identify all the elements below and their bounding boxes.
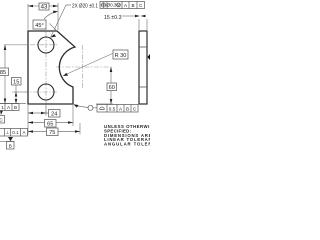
svg-text:24: 24: [51, 112, 57, 118]
svg-text:65: 65: [47, 122, 53, 128]
svg-text:15 ±0.3: 15 ±0.3: [104, 15, 122, 21]
svg-text:0.5: 0.5: [109, 106, 116, 111]
svg-text:B: B: [131, 3, 134, 8]
svg-text:B: B: [126, 106, 129, 111]
svg-text:⊥: ⊥: [5, 130, 9, 135]
svg-text:Ø0.3: Ø0.3: [107, 3, 117, 8]
svg-text:R 30: R 30: [115, 53, 127, 59]
svg-text:M: M: [117, 4, 120, 8]
svg-text:85: 85: [0, 70, 6, 76]
svg-text:ANGULAR TOLERANCES ±1°: ANGULAR TOLERANCES ±1°: [104, 142, 150, 147]
svg-text:43: 43: [41, 5, 48, 11]
svg-text:60: 60: [109, 85, 115, 91]
svg-text:15: 15: [13, 80, 19, 86]
svg-text:75: 75: [49, 130, 55, 136]
svg-text:B: B: [9, 144, 12, 149]
svg-text:0.1: 0.1: [12, 130, 19, 135]
svg-text:2X Ø20 ±0.1: 2X Ø20 ±0.1: [72, 3, 98, 9]
svg-text:1: 1: [1, 105, 4, 110]
svg-text:B: B: [14, 105, 17, 110]
svg-text:45°: 45°: [35, 23, 43, 29]
